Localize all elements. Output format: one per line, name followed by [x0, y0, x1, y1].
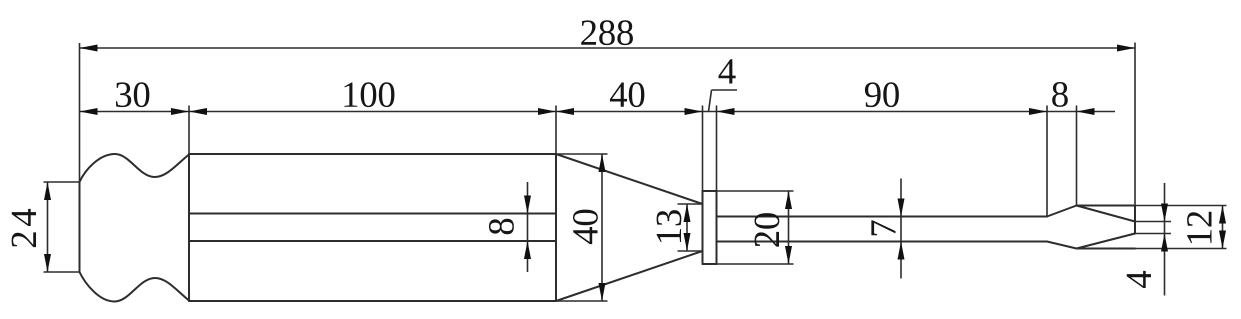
dimension line 20	[788, 191, 790, 264]
shaft bottom edge	[717, 241, 1048, 243]
arrow 7 top	[898, 199, 905, 217]
extension line at x=716.5	[716, 106, 718, 192]
label 100	[344, 82, 394, 107]
label 40 top	[610, 82, 644, 107]
arrow 7 bottom	[898, 242, 905, 260]
extension lines for 40 taper	[556, 154, 608, 301]
dimension line 40 taper	[601, 154, 603, 301]
cylinder bottom edge	[189, 300, 556, 302]
arrow 20 bottom	[785, 246, 792, 264]
handle left face	[79, 182, 81, 272]
arrow 8 inner bottom	[524, 241, 531, 259]
taper bottom edge	[556, 251, 703, 301]
arrow 288 right	[1117, 45, 1135, 52]
handle bottom wave	[80, 272, 190, 302]
arrow 4 tip top	[1161, 204, 1168, 222]
label 30	[116, 82, 149, 107]
label 7	[871, 220, 895, 235]
inner slot top line	[189, 213, 556, 215]
extension lines for 13	[678, 204, 703, 251]
extension lines for 20	[717, 191, 794, 264]
cylinder top edge	[189, 153, 556, 155]
arrow at 716.5	[717, 108, 735, 115]
tip end face	[1134, 206, 1136, 234]
extension lines for 24	[44, 182, 80, 272]
extension line at x=189	[188, 106, 190, 155]
taper top edge	[556, 154, 703, 204]
dimension line row 30/100/40/4/90/8	[80, 111, 1116, 113]
arrow 30 left	[80, 108, 98, 115]
extension line at x=1135	[1134, 43, 1136, 206]
label 4 top	[719, 59, 736, 83]
arrow 8 inner top	[524, 196, 531, 214]
dimension line 13	[686, 204, 688, 251]
cylinder left edge	[188, 154, 190, 301]
dimension line 12	[1222, 206, 1224, 249]
handle top wave	[80, 154, 190, 182]
dimension line 4 tip	[1164, 183, 1166, 296]
arrow pair at 189	[171, 108, 189, 115]
blade top edge	[1077, 205, 1136, 207]
label 13	[657, 210, 682, 242]
extension line at x=1076.5	[1076, 106, 1078, 206]
arrow 4 tip bottom	[1161, 234, 1168, 252]
arrow 13 top	[684, 204, 691, 222]
blade flare top	[1047, 206, 1077, 217]
extension line at x=79.5	[79, 43, 81, 182]
inner slot bottom line	[189, 240, 556, 242]
arrow 13 bottom	[684, 233, 691, 251]
blade flare bottom	[1047, 242, 1077, 249]
arrow at 1047	[1029, 108, 1047, 115]
flange top edge	[703, 190, 717, 192]
arrow 24 bottom	[44, 254, 51, 272]
shaft top edge	[717, 216, 1048, 218]
blade bottom edge	[1077, 248, 1136, 250]
wedge top edge	[1077, 206, 1136, 222]
taper start edge	[555, 154, 557, 301]
extension line at x=1047	[1046, 106, 1048, 217]
label 12	[1187, 212, 1211, 243]
arrow 12 bottom	[1219, 231, 1226, 249]
arrow at 1076.5	[1077, 108, 1095, 115]
extension line at x=702.5	[702, 106, 704, 192]
wedge bottom edge	[1077, 234, 1136, 249]
label 8 inner	[489, 219, 514, 235]
arrow at 702.5	[685, 108, 703, 115]
arrow 12 top	[1219, 206, 1226, 224]
label 288 top	[581, 20, 633, 45]
label 90	[865, 82, 899, 107]
dimension line 24	[47, 182, 49, 272]
flange bottom edge	[703, 263, 717, 265]
flange left edge	[702, 191, 704, 264]
arrow 288 left	[80, 45, 98, 52]
dimension line 8 inner	[527, 182, 529, 272]
flange right edge	[716, 191, 718, 264]
extension lines for 12	[1135, 206, 1227, 249]
arrow 20 top	[785, 191, 792, 209]
arrow 40 taper bottom	[599, 283, 606, 301]
extension line at x=556	[555, 106, 557, 155]
leader for 4 label	[709, 90, 738, 112]
label 24 side	[12, 209, 36, 247]
dimension line 288	[80, 47, 1136, 49]
label 4 tip	[1127, 271, 1151, 288]
arrow 24 top	[44, 182, 51, 200]
extension lines for 4 tip	[1135, 222, 1171, 234]
arrow pair at 556	[538, 108, 556, 115]
label 40 taper	[573, 210, 598, 244]
label 8 top	[1052, 82, 1068, 107]
arrow 40 taper top	[599, 154, 606, 172]
label 20	[754, 213, 779, 247]
dimension line 7	[900, 179, 902, 279]
